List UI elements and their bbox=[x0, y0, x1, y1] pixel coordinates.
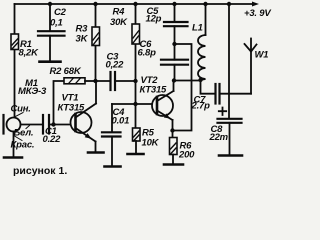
svg-text:C2: C2 bbox=[54, 7, 67, 18]
node rail R4 tap bbox=[133, 2, 137, 6]
node rail L1 tap bbox=[203, 2, 207, 6]
wire C8 column bbox=[228, 4, 230, 119]
transistor VT1 bbox=[71, 104, 97, 142]
svg-text:6.8p: 6.8p bbox=[138, 48, 157, 59]
svg-text:Син.: Син. bbox=[11, 104, 31, 115]
wire C7 to antenna bbox=[220, 93, 252, 95]
wire L1 bottom to C7 bbox=[201, 80, 216, 94]
transistor VT2 bbox=[152, 91, 174, 120]
wire C1 to base VT1 bbox=[49, 124, 76, 126]
resistor R2 bbox=[64, 78, 85, 84]
wire R2 right lead bbox=[85, 80, 96, 82]
ground C4 bbox=[105, 165, 121, 168]
wire top supply rail bbox=[15, 3, 253, 5]
ground mic bbox=[4, 156, 22, 159]
svg-text:22m: 22m bbox=[209, 132, 229, 143]
wire C2 top lead bbox=[49, 4, 51, 31]
node rail C2 tap bbox=[48, 2, 52, 6]
svg-text:L1: L1 bbox=[192, 23, 203, 34]
wire C4 bottom lead bbox=[111, 137, 113, 166]
inductor L1 bbox=[198, 4, 205, 80]
supply arrow +3.9V bbox=[252, 2, 259, 7]
svg-text:0.22: 0.22 bbox=[43, 134, 62, 145]
node rail C5 tap bbox=[172, 2, 176, 6]
capacitor C6 bbox=[161, 60, 188, 65]
ground R5 bbox=[128, 153, 144, 156]
wire R2 left lead bbox=[54, 81, 65, 125]
node L1 bottom bbox=[198, 78, 202, 82]
wire R4 column bbox=[135, 4, 137, 128]
resistor R4 bbox=[132, 24, 140, 44]
wire base VT2 bbox=[112, 103, 157, 105]
capacitor C8 bbox=[218, 119, 242, 123]
capacitor C4 bbox=[102, 132, 121, 136]
node capacitive divider bbox=[172, 42, 176, 46]
wire tank bottom bbox=[174, 80, 201, 82]
wire C4 top lead bbox=[111, 104, 113, 132]
capacitor C3 bbox=[111, 72, 116, 90]
wire C8 bottom lead bbox=[229, 123, 231, 155]
svg-text:+3. 9V: +3. 9V bbox=[244, 8, 271, 19]
wire collector VT1 bbox=[95, 81, 97, 104]
node rail C8 tap bbox=[227, 2, 231, 6]
node base VT2 bbox=[133, 102, 137, 106]
node emitter feedback bbox=[170, 128, 174, 132]
svg-text:МКЭ-3: МКЭ-3 bbox=[18, 86, 47, 97]
svg-text:0.01: 0.01 bbox=[112, 116, 130, 127]
svg-text:10K: 10K bbox=[142, 138, 160, 149]
node R4 bottom bbox=[133, 79, 137, 83]
ground C8 bbox=[219, 154, 242, 157]
wire C5 top lead bbox=[174, 4, 176, 22]
antenna W1 bbox=[245, 39, 257, 94]
node rail R3 tap bbox=[93, 2, 97, 6]
svg-text:рисунок 1.: рисунок 1. bbox=[13, 165, 67, 177]
wire C3 to base node VT2 bbox=[115, 80, 136, 82]
capacitor C2 bbox=[38, 31, 65, 36]
svg-text:8,2K: 8,2K bbox=[19, 48, 40, 59]
svg-text:0,1: 0,1 bbox=[50, 18, 63, 29]
svg-text:КТ315: КТ315 bbox=[140, 85, 168, 96]
wire left branch vertical bbox=[14, 4, 16, 118]
resistor R5 bbox=[133, 128, 141, 141]
wire collector VT2 bbox=[173, 81, 175, 92]
svg-text:КТ315: КТ315 bbox=[58, 103, 86, 114]
node collector VT2 tank bbox=[172, 78, 176, 82]
wire feedback divider to emitter bbox=[173, 44, 192, 131]
wire R5 bottom lead bbox=[135, 141, 137, 153]
wire C2 bottom lead bbox=[49, 36, 51, 61]
svg-text:R4: R4 bbox=[113, 7, 126, 18]
microphone M1 bbox=[4, 115, 21, 134]
svg-text:W1: W1 bbox=[255, 50, 269, 61]
capacitor C1 bbox=[43, 115, 49, 134]
svg-text:0,22: 0,22 bbox=[106, 60, 125, 71]
svg-text:200: 200 bbox=[178, 150, 195, 161]
svg-text:12p: 12p bbox=[146, 14, 162, 25]
svg-text:3K: 3K bbox=[76, 34, 89, 45]
wire emitter VT1 to ground bbox=[95, 142, 97, 152]
ground C2 bbox=[40, 60, 61, 63]
ground R6 bbox=[164, 163, 183, 166]
resistor R3 bbox=[92, 27, 100, 46]
node collector VT1 bbox=[93, 79, 97, 83]
ground VT1 emitter bbox=[88, 151, 104, 154]
wire mic to ground bbox=[13, 132, 15, 157]
capacitor C7 bbox=[216, 84, 220, 104]
wire C6 bottom lead bbox=[174, 65, 176, 81]
capacitor C8 polarity bbox=[219, 108, 226, 116]
svg-text:30K: 30K bbox=[110, 17, 128, 28]
capacitor C5 bbox=[164, 22, 188, 26]
wire C5 to C6 bbox=[174, 26, 176, 60]
resistor R1 bbox=[11, 34, 19, 50]
svg-text:R2 68K: R2 68K bbox=[50, 66, 82, 77]
node base VT1 bbox=[51, 122, 55, 126]
wire R3 column bbox=[95, 4, 97, 81]
svg-text:2.7p: 2.7p bbox=[191, 101, 211, 112]
wire collector node to C3 bbox=[96, 80, 111, 82]
wire emitter VT2 to R6 bbox=[172, 120, 174, 138]
resistor R6 bbox=[170, 138, 178, 155]
wire R6 bottom lead bbox=[172, 155, 174, 164]
wire mic to C1 bbox=[21, 124, 43, 126]
